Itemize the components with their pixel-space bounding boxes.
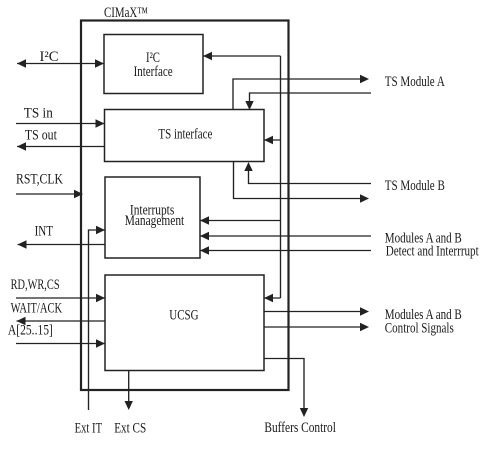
wire bus tap to I2C Interface [203,52,281,60]
svg-text:TS out: TS out [25,128,57,144]
block UCSG [105,275,264,371]
svg-text:TS in: TS in [24,106,54,122]
svg-text:I²C: I²C [40,49,59,65]
svg-text:Detect and Interrrupt: Detect and Interrrupt [386,244,479,260]
wire RD,WR,CS [16,294,105,302]
svg-text:A[25..15]: A[25..15] [8,323,53,339]
block I2C Interface [104,35,203,94]
block Interrupts Management [105,177,200,258]
svg-text:RST,CLK: RST,CLK [16,172,63,188]
block TS interface [105,110,265,162]
wire TS Module A output [233,75,369,110]
svg-text:Interface: Interface [134,64,173,80]
wire Modules A and B Detect line 1 [200,232,371,240]
outer box U1 CIMaX [81,21,289,391]
wire WAIT/ACK [17,317,106,325]
wire TS Module A input [245,93,371,110]
svg-text:RD,WR,CS: RD,WR,CS [11,277,60,293]
wire I2C bidirectional [17,59,104,67]
wire RST,CLK [16,190,83,198]
svg-text:Buffers Control: Buffers Control [264,420,336,436]
wire internal bus vertical [280,56,282,298]
wire Ext CS output [125,371,133,411]
wire bus tap to Interrupts Management [200,216,281,224]
svg-text:INT: INT [35,224,53,240]
svg-text:TS Module A: TS Module A [385,74,445,90]
svg-text:Ext CS: Ext CS [114,421,146,437]
wire TS Module B input [244,162,371,184]
wire TS in [16,119,105,127]
wire Modules A and B control output 1 [264,307,369,315]
wire TS Module B output [234,162,370,203]
wire Modules A and B Detect line 2 [200,246,371,254]
svg-text:WAIT/ACK: WAIT/ACK [11,301,63,317]
wire Buffers Control output [264,359,308,418]
wire TS out [17,142,105,150]
wire bus tap to TS interface [264,136,281,144]
svg-text:Control Signals: Control Signals [385,321,454,337]
wire Ext IT input to Interrupts [89,226,106,410]
svg-text:TS Module B: TS Module B [385,178,445,194]
svg-text:Management: Management [125,213,185,229]
wire bus tap to UCSG [264,294,281,302]
wire Modules A and B control output 2 [264,323,369,331]
svg-text:Ext IT: Ext IT [75,421,103,437]
svg-text:TS interface: TS interface [158,127,212,143]
svg-text:CIMaX™: CIMaX™ [104,5,148,21]
svg-text:UCSG: UCSG [169,308,199,324]
wire A[25..15] [16,339,105,347]
wire INT [18,240,106,248]
